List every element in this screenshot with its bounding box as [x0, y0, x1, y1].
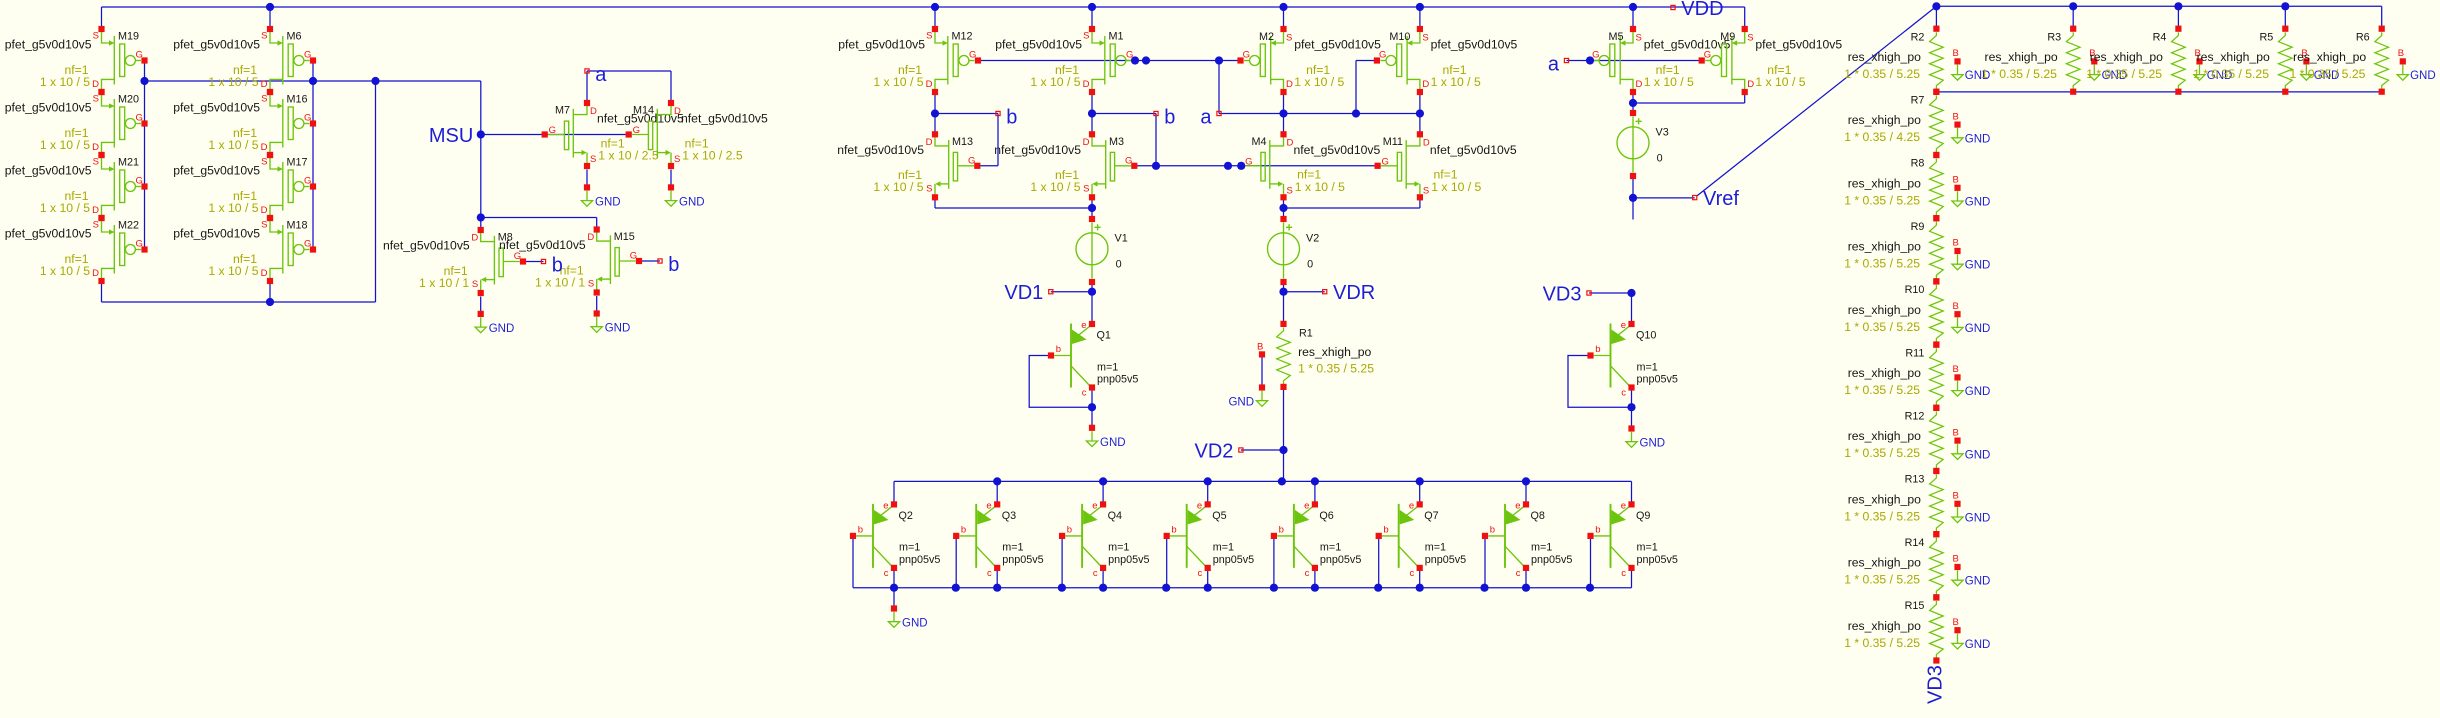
svg-text:MSU: MSU	[429, 125, 473, 147]
svg-text:Q4: Q4	[1108, 510, 1122, 522]
svg-text:GND: GND	[1965, 576, 1991, 588]
svg-text:1 * 0.35 / 5.25: 1 * 0.35 / 5.25	[2086, 67, 2162, 81]
wire	[1207, 568, 1209, 588]
wire	[1314, 481, 1316, 504]
wire gate rail column 1	[144, 61, 146, 250]
svg-text:e: e	[1621, 320, 1626, 331]
svg-text:Q3: Q3	[1002, 510, 1016, 522]
resistor R2 (res_xhigh_po, top pin at 1936.4,28.7)	[1930, 26, 1944, 95]
svg-text:nfet_g5v0d10v5: nfet_g5v0d10v5	[837, 143, 924, 157]
svg-text:M13: M13	[952, 136, 973, 148]
nfet M7 (mirrored, nfet_g5v0d10v5, D pin at 587,103)	[542, 100, 684, 169]
svg-text:1 x 10 / 5: 1 x 10 / 5	[208, 75, 258, 89]
svg-text:D: D	[926, 137, 933, 148]
wire	[1419, 199, 1421, 208]
wire VDD top rail	[102, 6, 1745, 8]
junction	[1352, 109, 1360, 117]
resistor R4 (res_xhigh_po, top pin at 2178.4,28.7)	[2172, 26, 2186, 95]
junction	[1629, 3, 1637, 11]
wire node a row to M2/M10 drains	[1219, 113, 1420, 115]
svg-text:1 * 0.35 / 5.25: 1 * 0.35 / 5.25	[1844, 573, 1920, 587]
junction	[140, 77, 148, 85]
svg-text:B: B	[1953, 238, 1959, 249]
svg-text:1 * 0.35 / 5.25: 1 * 0.35 / 5.25	[1844, 67, 1920, 81]
junction	[1627, 403, 1635, 411]
svg-text:R2: R2	[1911, 31, 1925, 43]
svg-text:M5: M5	[1609, 31, 1624, 43]
svg-text:D: D	[261, 268, 268, 279]
svg-text:R7: R7	[1911, 95, 1925, 107]
svg-text:S: S	[674, 154, 680, 165]
voltage source V2 (top pin at 1283.5,219)	[1268, 216, 1320, 285]
wire	[1273, 536, 1275, 588]
svg-text:S: S	[93, 220, 99, 231]
wire pnp array emitter rail	[894, 480, 1632, 482]
wire	[935, 113, 998, 115]
svg-text:M7: M7	[555, 105, 570, 117]
svg-text:pfet_g5v0d10v5: pfet_g5v0d10v5	[173, 163, 260, 177]
wire	[269, 7, 271, 29]
wire	[1356, 60, 1378, 62]
pfet M6 (pfet_g5v0d10v5, S pin at 270,29)	[173, 26, 316, 95]
pnp transistor Q4 (pnp05v5, e pin at 1103.1,504.4)	[1059, 500, 1150, 579]
junction	[1131, 56, 1139, 64]
junction	[1629, 99, 1637, 107]
svg-text:res_xhigh_po: res_xhigh_po	[2197, 50, 2270, 64]
svg-text:m=1: m=1	[1425, 542, 1446, 554]
svg-text:1 * 0.35 / 5.25: 1 * 0.35 / 5.25	[1844, 446, 1920, 460]
pfet M2 (mirrored, pfet_g5v0d10v5, S pin at 1283.5,29)	[1237, 26, 1381, 95]
wire gate rail column 2	[312, 61, 314, 250]
svg-text:D: D	[1083, 79, 1090, 90]
svg-text:c: c	[1409, 568, 1414, 579]
svg-text:pnp05v5: pnp05v5	[1002, 554, 1043, 566]
pnp transistor Q1 (pnp05v5, e pin at 1092,324)	[1048, 320, 1139, 399]
junction	[1088, 109, 1096, 117]
svg-text:GND: GND	[1965, 133, 1991, 145]
svg-text:S: S	[261, 31, 267, 42]
svg-text:M6: M6	[287, 31, 302, 43]
svg-text:R10: R10	[1905, 284, 1925, 296]
body pin B of R1	[1257, 342, 1265, 358]
svg-text:GND: GND	[1965, 639, 1991, 651]
body pin B of R6 with ground	[2397, 48, 2435, 82]
svg-text:0: 0	[1307, 259, 1313, 271]
nfet M11 (mirrored, nfet_g5v0d10v5, D pin at 1419.9,134.3)	[1375, 131, 1517, 200]
resistor R6 (res_xhigh_po, top pin at 2381.7,28.7)	[2375, 26, 2389, 95]
junction	[1311, 477, 1319, 485]
junction	[1311, 584, 1319, 592]
svg-text:b: b	[1595, 524, 1600, 535]
pfet M12 (pfet_g5v0d10v5, S pin at 935,29)	[838, 26, 981, 95]
svg-text:V1: V1	[1115, 233, 1128, 245]
wire diagonal Vref to resistor chain	[1697, 6, 1937, 196]
wire	[1484, 536, 1486, 588]
svg-text:G: G	[630, 251, 637, 262]
svg-text:1 x 10 / 5: 1 x 10 / 5	[1295, 180, 1345, 194]
pnp transistor Q5 (pnp05v5, e pin at 1207.7,504.4)	[1164, 500, 1255, 579]
svg-text:1 * 0.35 / 5.25: 1 * 0.35 / 5.25	[2193, 67, 2269, 81]
svg-text:VD3: VD3	[1925, 665, 1947, 704]
wire	[375, 81, 377, 302]
junction	[1142, 56, 1150, 64]
svg-text:1 x 10 / 5: 1 x 10 / 5	[1030, 75, 1080, 89]
svg-text:b: b	[668, 254, 679, 276]
wire	[1935, 6, 1937, 28]
svg-text:pfet_g5v0d10v5: pfet_g5v0d10v5	[173, 37, 260, 51]
wire resistor top rail	[1936, 5, 2381, 7]
svg-text:m=1: m=1	[1213, 542, 1234, 554]
svg-text:B: B	[1953, 111, 1959, 122]
svg-text:G: G	[1125, 155, 1132, 166]
svg-text:1 x 10 / 2.5: 1 x 10 / 2.5	[682, 149, 743, 163]
svg-text:pnp05v5: pnp05v5	[1637, 554, 1678, 566]
wire	[1283, 199, 1285, 208]
wire	[2381, 6, 2383, 28]
wire	[1631, 391, 1633, 429]
svg-text:S: S	[261, 94, 267, 105]
svg-text:M16: M16	[287, 94, 308, 106]
node VD3 (rotated label at bottom of resistor chain)	[1925, 665, 1947, 704]
svg-text:Q9: Q9	[1636, 510, 1650, 522]
svg-text:M11: M11	[1383, 136, 1403, 148]
junction	[1152, 162, 1160, 170]
svg-text:G: G	[304, 176, 311, 187]
svg-text:Q2: Q2	[899, 510, 913, 522]
svg-text:1 x 10 / 5: 1 x 10 / 5	[873, 75, 923, 89]
pnp transistor Q8 (pnp05v5, e pin at 1526,504.4)	[1482, 500, 1573, 579]
svg-text:1 * 0.35 / 5.25: 1 * 0.35 / 5.25	[1844, 636, 1920, 650]
wire	[1633, 197, 1695, 199]
svg-text:G: G	[304, 50, 311, 61]
svg-text:b: b	[1006, 107, 1017, 129]
svg-text:Vref: Vref	[1703, 188, 1739, 210]
svg-text:1 * 0.35 / 5.25: 1 * 0.35 / 5.25	[1981, 67, 2057, 81]
node MSU (label pin at 480.8,134.5)	[429, 125, 473, 147]
svg-text:1 x 10 / 1: 1 x 10 / 1	[419, 276, 469, 290]
svg-text:a: a	[595, 64, 607, 86]
svg-text:G: G	[1243, 50, 1250, 61]
junction	[1522, 584, 1530, 592]
pfet M10 (mirrored, pfet_g5v0d10v5, S pin at 1419.9,29)	[1374, 26, 1518, 95]
svg-text:GND: GND	[1100, 437, 1126, 449]
svg-text:B: B	[1953, 617, 1959, 628]
pfet M1 (pfet_g5v0d10v5, S pin at 1092,29)	[995, 26, 1138, 95]
wire	[1631, 293, 1633, 324]
svg-text:M19: M19	[118, 31, 139, 43]
svg-text:pfet_g5v0d10v5: pfet_g5v0d10v5	[5, 100, 92, 114]
wire gate net b (M3-M4-M11)	[1135, 165, 1378, 167]
resistor R8 (res_xhigh_po, top pin at 1936.4,155.1)	[1930, 152, 1944, 221]
svg-text:1 x 10 / 5: 1 x 10 / 5	[208, 201, 258, 215]
svg-text:pnp05v5: pnp05v5	[1097, 374, 1138, 386]
svg-text:e: e	[986, 500, 991, 511]
body pin B of R13 with ground	[1952, 491, 1990, 525]
svg-text:M1: M1	[1109, 31, 1124, 43]
svg-text:M15: M15	[614, 231, 635, 243]
svg-text:S: S	[1423, 185, 1429, 196]
svg-text:GND: GND	[679, 196, 705, 208]
ground (pin at 894,608.5)	[888, 605, 927, 629]
svg-text:b: b	[1171, 524, 1176, 535]
svg-text:GND: GND	[1965, 323, 1991, 335]
svg-text:1 x 10 / 5: 1 x 10 / 5	[1294, 75, 1344, 89]
wire	[1166, 536, 1168, 588]
junction	[1416, 109, 1424, 117]
svg-text:GND: GND	[489, 323, 515, 335]
svg-text:c: c	[1093, 568, 1098, 579]
svg-text:GND: GND	[1228, 397, 1254, 409]
ground (pin at 587,187.4)	[581, 184, 620, 208]
wire pfet array bottom	[102, 301, 376, 303]
junction	[1416, 477, 1424, 485]
svg-text:pfet_g5v0d10v5: pfet_g5v0d10v5	[838, 37, 925, 51]
svg-text:1 x 10 / 5: 1 x 10 / 5	[1755, 75, 1805, 89]
ground (pin at 1092,427.8)	[1086, 425, 1125, 449]
ground (pin at 671,187.4)	[665, 184, 704, 208]
svg-text:e: e	[1081, 320, 1086, 331]
svg-text:e: e	[1621, 500, 1626, 511]
wire	[852, 536, 854, 588]
svg-text:GND: GND	[1640, 438, 1666, 450]
svg-text:G: G	[136, 113, 143, 124]
svg-text:M14: M14	[633, 105, 654, 117]
junction	[371, 77, 379, 85]
wire	[1744, 7, 1746, 29]
svg-text:m=1: m=1	[1108, 542, 1129, 554]
svg-text:B: B	[1953, 301, 1959, 312]
node b (label pin at 998,113.5)	[996, 107, 1018, 129]
svg-text:m=1: m=1	[1320, 542, 1341, 554]
svg-text:b: b	[1383, 524, 1388, 535]
node b (label pin at 660,261)	[658, 254, 680, 276]
body pin B of R10 with ground	[1952, 301, 1990, 335]
nfet M14 (mirrored, nfet_g5v0d10v5, D pin at 671,103)	[626, 100, 768, 169]
svg-text:M22: M22	[118, 220, 139, 232]
svg-text:R5: R5	[2259, 31, 2273, 43]
body pin B of R8 with ground	[1952, 175, 1990, 209]
svg-text:G: G	[1379, 50, 1386, 61]
svg-text:M4: M4	[1252, 136, 1267, 148]
junction	[1374, 584, 1382, 592]
svg-text:R14: R14	[1905, 537, 1925, 549]
junction	[1088, 288, 1096, 296]
svg-text:S: S	[472, 279, 478, 290]
junction	[2174, 2, 2182, 10]
svg-text:G: G	[136, 176, 143, 187]
node VD2 (label pin at 1240.9,450)	[1194, 441, 1243, 463]
svg-text:B: B	[1953, 427, 1959, 438]
resistor R13 (res_xhigh_po, top pin at 1936.4,471.1)	[1930, 468, 1944, 537]
junction	[1204, 477, 1212, 485]
svg-text:e: e	[883, 500, 888, 511]
svg-text:m=1: m=1	[1637, 361, 1658, 373]
body pin B of R15 with ground	[1952, 617, 1990, 651]
svg-text:pfet_g5v0d10v5: pfet_g5v0d10v5	[995, 37, 1082, 51]
svg-text:nfet_g5v0d10v5: nfet_g5v0d10v5	[681, 112, 768, 126]
svg-text:GND: GND	[1965, 513, 1991, 525]
wire	[934, 199, 936, 208]
svg-text:b: b	[1595, 344, 1600, 355]
svg-text:1 x 10 / 2.5: 1 x 10 / 2.5	[598, 149, 659, 163]
svg-text:1 * 0.35 / 5.25: 1 * 0.35 / 5.25	[1844, 320, 1920, 334]
wire MSU horizontal	[145, 80, 481, 82]
svg-text:pnp05v5: pnp05v5	[1320, 554, 1361, 566]
svg-text:b: b	[858, 524, 863, 535]
svg-text:1 x 10 / 5: 1 x 10 / 5	[40, 264, 90, 278]
svg-text:c: c	[884, 568, 889, 579]
svg-text:D: D	[92, 205, 99, 216]
svg-text:V3: V3	[1656, 127, 1669, 139]
svg-text:S: S	[93, 157, 99, 168]
svg-text:VD2: VD2	[1194, 441, 1233, 463]
resistor R7 (res_xhigh_po, top pin at 1936.4,91.9)	[1930, 89, 1944, 158]
svg-text:M21: M21	[118, 157, 139, 169]
svg-text:D: D	[587, 232, 594, 243]
svg-text:G: G	[1382, 156, 1389, 167]
wire resistor bottom rail	[1936, 91, 2381, 93]
wire	[934, 95, 936, 134]
wire	[1283, 95, 1285, 134]
wire	[1102, 568, 1104, 588]
svg-text:pfet_g5v0d10v5: pfet_g5v0d10v5	[173, 100, 260, 114]
svg-text:S: S	[1422, 33, 1428, 44]
pnp transistor Q2 (pnp05v5, e pin at 894,504.4)	[850, 500, 941, 579]
svg-text:res_xhigh_po: res_xhigh_po	[1848, 429, 1921, 443]
wire	[1261, 354, 1263, 387]
svg-text:Q5: Q5	[1212, 510, 1226, 522]
pnp transistor Q3 (pnp05v5, e pin at 997.2,504.4)	[953, 500, 1044, 579]
junction	[1629, 194, 1637, 202]
resistor R1 (res_xhigh_po, top pin at 1283.5,323.9)	[1277, 321, 1291, 390]
resistor R3 (res_xhigh_po, top pin at 2073.2,28.7)	[2066, 26, 2080, 95]
wire gate net a (M5-M9)	[1567, 60, 1703, 62]
svg-text:e: e	[1092, 500, 1097, 511]
ground (pin at 596.7,313.5)	[591, 310, 630, 334]
body pin B of R4 with ground	[2194, 48, 2232, 82]
svg-text:GND: GND	[2410, 70, 2436, 82]
svg-text:1 * 0.35 / 5.25: 1 * 0.35 / 5.25	[1844, 509, 1920, 523]
wire	[1091, 7, 1093, 29]
pfet M18 (pfet_g5v0d10v5, S pin at 270,218)	[173, 215, 316, 284]
wire MSU vertical	[480, 81, 482, 230]
wire	[639, 260, 660, 262]
svg-text:S: S	[588, 279, 594, 290]
svg-text:1 x 10 / 1: 1 x 10 / 1	[535, 275, 585, 289]
wire	[1091, 95, 1093, 134]
junction	[1416, 584, 1424, 592]
svg-text:m=1: m=1	[1531, 542, 1552, 554]
pnp transistor Q10 (pnp05v5, e pin at 1631.5,324)	[1587, 320, 1678, 399]
svg-text:GND: GND	[1965, 386, 1991, 398]
svg-text:c: c	[1082, 388, 1087, 399]
svg-text:1 x 10 / 5: 1 x 10 / 5	[208, 264, 258, 278]
wire node a to M7/M14 drains	[586, 71, 588, 103]
svg-text:S: S	[1083, 183, 1089, 194]
svg-text:1 * 0.35 / 5.25: 1 * 0.35 / 5.25	[1844, 383, 1920, 397]
svg-text:D: D	[261, 142, 268, 153]
junction	[266, 3, 274, 11]
svg-text:res_xhigh_po: res_xhigh_po	[1298, 345, 1371, 359]
svg-text:pfet_g5v0d10v5: pfet_g5v0d10v5	[1644, 37, 1731, 51]
body pin B of R3 with ground	[2089, 48, 2127, 82]
junction	[1416, 3, 1424, 11]
junction	[1279, 288, 1287, 296]
svg-text:S: S	[261, 220, 267, 231]
svg-text:nfet_g5v0d10v5: nfet_g5v0d10v5	[383, 239, 470, 253]
svg-text:res_xhigh_po: res_xhigh_po	[1848, 619, 1921, 633]
svg-text:pnp05v5: pnp05v5	[899, 554, 940, 566]
pfet M5 (mirrored, pfet_g5v0d10v5, S pin at 1633,29)	[1587, 26, 1731, 95]
wire	[1051, 291, 1092, 293]
pfet M19 (pfet_g5v0d10v5, S pin at 101.5,29)	[5, 26, 148, 95]
svg-text:B: B	[1953, 491, 1959, 502]
junction	[1088, 403, 1096, 411]
junction	[1058, 584, 1066, 592]
svg-text:S: S	[261, 157, 267, 168]
svg-text:c: c	[1621, 388, 1626, 399]
svg-text:GND: GND	[595, 196, 621, 208]
svg-text:pnp05v5: pnp05v5	[1637, 374, 1678, 386]
wire	[1218, 61, 1220, 114]
wire	[1419, 481, 1421, 504]
wire pnp array collector rail	[853, 587, 1632, 589]
wire	[1314, 568, 1316, 588]
wire	[1091, 391, 1093, 428]
svg-text:m=1: m=1	[1637, 542, 1658, 554]
wire	[1284, 207, 1420, 209]
pfet M9 (mirrored, pfet_g5v0d10v5, S pin at 1744.7,29)	[1699, 26, 1843, 95]
wire	[1632, 176, 1634, 198]
nfet M3 (nfet_g5v0d10v5, D pin at 1092,134.3)	[994, 131, 1137, 200]
svg-text:e: e	[1515, 500, 1520, 511]
body pin B of R7 with ground	[1952, 111, 1990, 145]
junction	[1099, 584, 1107, 592]
svg-text:1 x 10 / 5: 1 x 10 / 5	[40, 138, 90, 152]
wire	[1419, 7, 1421, 29]
nfet M4 (mirrored, nfet_g5v0d10v5, D pin at 1283.5,134.3)	[1238, 131, 1380, 200]
svg-text:D: D	[926, 79, 933, 90]
body pin B of R9 with ground	[1952, 238, 1990, 272]
wire	[101, 281, 103, 302]
voltage source V1 (top pin at 1092,219)	[1076, 216, 1128, 285]
wire	[893, 481, 895, 504]
svg-text:b: b	[1490, 524, 1495, 535]
svg-text:G: G	[1245, 156, 1252, 167]
svg-text:1 x 10 / 5: 1 x 10 / 5	[873, 180, 923, 194]
wire	[935, 207, 1092, 209]
wire	[2284, 6, 2286, 28]
pfet M16 (pfet_g5v0d10v5, S pin at 270,92)	[173, 89, 316, 158]
wire	[481, 217, 597, 219]
node b (label pin at 1156,113.5)	[1154, 107, 1176, 129]
svg-text:V2: V2	[1306, 233, 1319, 245]
resistor R9 (res_xhigh_po, top pin at 1936.4,218.3)	[1930, 215, 1944, 284]
svg-text:pnp05v5: pnp05v5	[1213, 554, 1254, 566]
svg-text:D: D	[261, 79, 268, 90]
svg-text:Q1: Q1	[1097, 330, 1111, 342]
junction	[1279, 3, 1287, 11]
svg-text:pfet_g5v0d10v5: pfet_g5v0d10v5	[5, 226, 92, 240]
wire	[269, 281, 271, 302]
junction	[1088, 3, 1096, 11]
svg-text:S: S	[1287, 185, 1293, 196]
pnp transistor Q7 (pnp05v5, e pin at 1419.7,504.4)	[1376, 500, 1467, 579]
svg-text:1 * 0.35 / 5.25: 1 * 0.35 / 5.25	[1844, 193, 1920, 207]
svg-text:S: S	[1747, 33, 1753, 44]
svg-text:B: B	[1257, 342, 1263, 353]
svg-text:R11: R11	[1905, 347, 1924, 359]
